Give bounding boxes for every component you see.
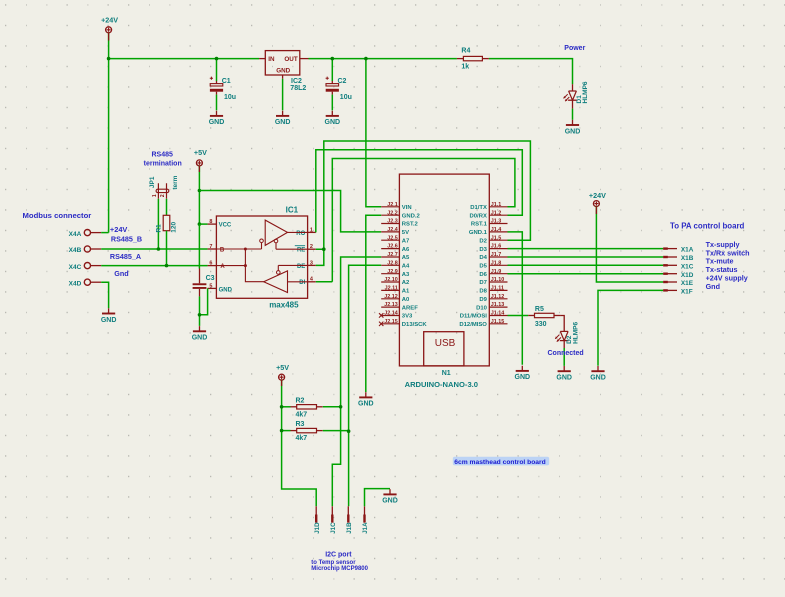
svg-text:JP1: JP1 [149, 176, 156, 188]
svg-text:X4A: X4A [69, 231, 82, 238]
svg-text:A3: A3 [402, 272, 410, 278]
IC1 interior RE/DE enables [276, 243, 308, 271]
svg-text:GND: GND [192, 335, 208, 342]
svg-text:Gnd: Gnd [706, 282, 720, 291]
connector pin X1B [663, 256, 677, 258]
pin J2.13 (AREF) [381, 306, 399, 308]
pin J1.12 (D9) [489, 298, 507, 300]
svg-text:R5: R5 [535, 306, 544, 313]
pin OUT of IC2 [300, 58, 309, 60]
svg-text:J2.7: J2.7 [387, 252, 398, 258]
IC1 interior receiver triangle [265, 220, 287, 245]
pin J2.14 (3V3) [381, 315, 399, 317]
connector pin X1F [663, 289, 677, 291]
svg-text:4k7: 4k7 [296, 412, 308, 419]
regulator IC2 78L2 [265, 51, 300, 75]
junction R3 / A4 [347, 429, 351, 433]
pin J2.10 (A2) [381, 281, 399, 283]
svg-text:7: 7 [209, 244, 212, 250]
pin J1.15 (D12/MISO) [489, 323, 507, 325]
pin J1.11 (D8) [489, 289, 507, 291]
junction R2 / A5 [339, 405, 343, 409]
connector pin J1C [331, 506, 333, 522]
svg-text:GND: GND [275, 119, 291, 126]
wire +5V to R3 [282, 430, 291, 432]
pin J1.9 (D6) [489, 273, 507, 275]
ground below IC1 [199, 326, 201, 331]
wire X4A to +24V net [101, 232, 108, 234]
wire DI to D1/TX (J1.1) [316, 159, 515, 282]
pin J2.5 (A7) [381, 239, 399, 241]
svg-text:DI: DI [299, 280, 305, 286]
junction +24V rail / vertical [107, 57, 111, 61]
ground below D2 [563, 366, 565, 371]
svg-text:1: 1 [152, 194, 158, 197]
power symbol +24V (top left) [106, 27, 112, 33]
wire J1A to ground [365, 489, 391, 507]
wire rail to C2 [331, 59, 333, 81]
wire R3 to A4 line [323, 430, 349, 432]
svg-text:A7: A7 [402, 238, 410, 244]
svg-text:VCC: VCC [219, 222, 232, 228]
svg-text:J1.14: J1.14 [491, 311, 505, 317]
ground below D1 [572, 120, 574, 125]
svg-text:Modbus connector: Modbus connector [23, 211, 92, 220]
svg-text:J2.4: J2.4 [387, 227, 398, 233]
svg-text:J2.8: J2.8 [387, 260, 398, 266]
resistor R3 4k7 [291, 430, 297, 432]
svg-text:1: 1 [310, 227, 313, 233]
resistor R4 1k [457, 58, 464, 60]
pin 7 B of IC1 [208, 248, 217, 250]
svg-text:J1A: J1A [362, 522, 369, 534]
svg-text:C2: C2 [338, 78, 347, 85]
svg-text:4k7: 4k7 [296, 435, 308, 442]
svg-text:A: A [220, 264, 225, 270]
resistor R2 4k7 [291, 406, 297, 408]
ground below GND.2 [365, 392, 367, 397]
pin J2.8 (A4) [381, 264, 399, 266]
svg-text:J1.2: J1.2 [491, 210, 502, 216]
svg-text:Microchip MCP9800: Microchip MCP9800 [311, 566, 368, 572]
svg-text:6cm masthead control board: 6cm masthead control board [454, 459, 545, 466]
pin J2.7 (A5) [381, 256, 399, 258]
wire A5 (J2.7) to J1C [332, 257, 381, 506]
svg-text:DE: DE [297, 264, 305, 270]
svg-text:J1D: J1D [314, 522, 321, 534]
svg-text:RE: RE [297, 248, 305, 254]
pin J2.4 (5V) [381, 231, 399, 233]
pin 3 DE of IC1 [308, 264, 316, 266]
svg-text:B: B [220, 247, 225, 253]
USB box [424, 332, 464, 366]
wire R2 to A5 line [323, 406, 341, 408]
svg-text:X1A: X1A [681, 247, 694, 254]
lead to D1 anode [572, 84, 574, 91]
svg-text:120: 120 [171, 221, 178, 232]
svg-text:+5V: +5V [194, 148, 207, 157]
svg-text:GND: GND [276, 68, 290, 75]
ground below X1F [597, 366, 599, 371]
svg-text:C3: C3 [206, 275, 215, 282]
pin 1 RO of IC1 [308, 231, 316, 233]
svg-text:2: 2 [160, 194, 166, 197]
ground below C1 [216, 111, 218, 116]
junction C2 tap [331, 57, 335, 61]
resistor R1 120 (termination) [163, 215, 170, 230]
svg-text:J2.10: J2.10 [384, 277, 398, 283]
svg-text:GND: GND [219, 287, 233, 293]
svg-text:D3: D3 [479, 247, 487, 253]
wire RE+DE to D2 (J1.5) [316, 141, 531, 265]
pin J2.12 (A0) [381, 298, 399, 300]
svg-text:A2: A2 [402, 280, 410, 286]
wire +24V vertical from symbol to X4A row [108, 33, 110, 233]
svg-text:A5: A5 [402, 255, 410, 261]
wire +12V rail to Arduino VIN (J2.1) [366, 59, 381, 207]
svg-text:HLMP6: HLMP6 [572, 321, 579, 343]
pin J1.8 (D5) [489, 264, 507, 266]
pin J1.4 (GND.1) [489, 231, 507, 233]
svg-text:8: 8 [209, 219, 212, 225]
svg-text:to Temp sensor: to Temp sensor [311, 560, 356, 566]
svg-text:X1C: X1C [681, 263, 694, 270]
power symbol pin stubs [109, 33, 597, 387]
svg-text:78L2: 78L2 [290, 85, 306, 92]
svg-text:USB: USB [435, 338, 456, 349]
junction VIN tap on rail [364, 57, 368, 61]
pin J1.7 (D4) [489, 256, 507, 258]
module N1 ARDUINO-NANO-3.0 body [399, 174, 489, 366]
junction C3/IC1 gnd [198, 313, 202, 317]
wire JP1 pin1 to RS485_B [157, 199, 159, 249]
ground below IC2 [282, 111, 284, 116]
svg-text:J1.7: J1.7 [491, 252, 502, 258]
wire RO to D0/RX (J1.2) [316, 150, 523, 233]
svg-text:max485: max485 [269, 301, 299, 310]
connector pin X4A [84, 230, 90, 236]
junction C1 tap [215, 57, 219, 61]
pin J1.3 (RST.1) [489, 223, 507, 225]
wire D3 (J1.6) to X1A [508, 248, 664, 250]
junction +5V branch [198, 189, 202, 193]
svg-text:+24V: +24V [589, 191, 606, 200]
wire +5V to Arduino 5V pin (J2.4) [199, 191, 381, 232]
connector pin J1A [364, 506, 366, 522]
svg-text:AREF: AREF [402, 305, 418, 311]
wire JP1 pin2 to R1 [166, 199, 168, 216]
pin J1.6 (D3) [489, 248, 507, 250]
wire X4D to ground [101, 282, 108, 308]
svg-text:D9: D9 [479, 297, 487, 303]
svg-text:term: term [172, 175, 179, 189]
svg-text:J1.13: J1.13 [491, 302, 505, 308]
svg-text:D12/MISO: D12/MISO [459, 322, 487, 328]
pin J2.6 (A6) [381, 248, 399, 250]
svg-text:J2.5: J2.5 [387, 235, 398, 241]
svg-text:RS485: RS485 [151, 152, 173, 159]
wire IC2 OUT rail to R4 [309, 58, 457, 60]
svg-text:D13/SCK: D13/SCK [402, 322, 428, 328]
svg-text:GND: GND [209, 119, 225, 126]
svg-text:J2.13: J2.13 [384, 302, 398, 308]
svg-text:J2.15: J2.15 [384, 319, 398, 325]
pin 2 RE of IC1 [308, 248, 316, 250]
svg-text:10u: 10u [224, 94, 236, 101]
svg-text:A4: A4 [402, 264, 410, 270]
connector pin X1A [663, 248, 677, 250]
wire +24V to X1E [596, 206, 663, 282]
wire C1 to ground [216, 95, 218, 111]
ground below J1A [389, 489, 391, 494]
wire R1 to RS485_A [166, 231, 168, 266]
svg-text:J1.12: J1.12 [491, 294, 505, 300]
wire IC1 GND to ground jog [200, 288, 208, 314]
power symbol +5V (I2C) [279, 374, 285, 380]
svg-text:R1: R1 [156, 224, 163, 233]
svg-text:D0/RX: D0/RX [470, 213, 487, 219]
lead R5 to D2 [560, 316, 564, 332]
svg-text:D1/TX: D1/TX [470, 205, 487, 211]
svg-text:A1: A1 [402, 289, 410, 295]
junction R1 on A line [165, 264, 169, 268]
svg-text:RS485_B: RS485_B [111, 234, 142, 243]
pin J1.14 (D11/MOSI) [489, 315, 507, 317]
svg-text:GND.1: GND.1 [469, 230, 488, 236]
svg-text:J2.3: J2.3 [387, 219, 398, 225]
pin GND of IC2 [282, 75, 284, 79]
svg-text:1k: 1k [461, 64, 469, 71]
junction JP1 on B line [157, 247, 161, 251]
svg-text:IC1: IC1 [286, 206, 299, 215]
wire rail to C1 [216, 59, 218, 81]
svg-text:2: 2 [310, 244, 313, 250]
connector pin X1D [663, 273, 677, 275]
svg-text:RS485_A: RS485_A [110, 252, 141, 261]
pin IN of IC2 [259, 58, 265, 60]
svg-text:X1D: X1D [681, 272, 694, 279]
svg-text:J1.4: J1.4 [491, 227, 502, 233]
svg-text:J1.9: J1.9 [491, 269, 502, 275]
pin J1.10 (D7) [489, 281, 507, 283]
svg-text:GND: GND [101, 317, 117, 324]
no-connect cross on 3V3 [379, 313, 383, 317]
svg-text:C1: C1 [222, 78, 231, 85]
svg-text:D6: D6 [479, 272, 487, 278]
svg-text:J1C: J1C [330, 522, 337, 534]
svg-text:J1.10: J1.10 [491, 277, 505, 283]
connector pin X1E [663, 281, 677, 283]
wire C2 to ground [331, 95, 333, 111]
svg-text:OUT: OUT [284, 56, 297, 63]
svg-text:GND: GND [515, 374, 531, 381]
svg-text:J2.12: J2.12 [384, 294, 398, 300]
svg-text:X4C: X4C [69, 264, 82, 271]
svg-text:5V: 5V [402, 230, 409, 236]
svg-text:J1.5: J1.5 [491, 235, 502, 241]
svg-text:termination: termination [144, 160, 182, 167]
connector pin X4C [84, 263, 90, 269]
wire D2 to ground [563, 348, 565, 366]
svg-text:J1.8: J1.8 [491, 260, 502, 266]
pin 6 A of IC1 [208, 265, 217, 267]
wire to IC1 VCC pin [199, 223, 207, 225]
svg-text:J1.6: J1.6 [491, 244, 502, 250]
svg-text:GND: GND [590, 375, 606, 382]
pin 4 DI of IC1 [308, 281, 316, 283]
svg-text:X4B: X4B [69, 247, 82, 254]
connector pin J1B [347, 506, 349, 522]
wire D5 (J1.8) to X1C [508, 264, 664, 266]
lead D1 cathode [572, 100, 574, 108]
wire RS485_A from X4C to IC1 pin A [101, 265, 207, 267]
capacitor C3 [199, 269, 201, 284]
svg-text:J2.14: J2.14 [384, 311, 398, 317]
wire GND.2 (J2.2) to ground [366, 215, 381, 392]
svg-text:To PA control board: To PA control board [670, 221, 745, 230]
svg-text:J1.1: J1.1 [491, 202, 502, 208]
wire +5V to R2 [282, 406, 291, 408]
svg-text:Connected: Connected [548, 350, 584, 357]
svg-text:D4: D4 [479, 255, 487, 261]
wire +5V down to VCC [198, 166, 200, 225]
svg-text:HLMP6: HLMP6 [582, 81, 589, 103]
power symbol +24V (right) [593, 201, 599, 207]
svg-text:X4D: X4D [69, 280, 82, 287]
svg-text:J2.6: J2.6 [387, 244, 398, 250]
pin J2.1 (VIN) [381, 206, 399, 208]
svg-text:J2.2: J2.2 [387, 210, 398, 216]
IC1 interior B/A bus [216, 243, 263, 282]
wire D1 to ground [572, 109, 574, 120]
capacitor C2 10u [331, 81, 333, 84]
pin J1.5 (D2) [489, 239, 507, 241]
junction R3 on +5V [280, 429, 284, 433]
svg-text:GND: GND [325, 119, 341, 126]
svg-text:330: 330 [535, 321, 547, 328]
junction RE/DE tie [322, 247, 326, 251]
svg-text:10u: 10u [340, 94, 352, 101]
pin J2.15 (D13/SCK) [381, 323, 399, 325]
wire D11/MOSI to R5 [508, 315, 529, 317]
svg-text:+24V: +24V [110, 225, 128, 234]
connector pin J1D [315, 506, 317, 522]
svg-text:J1.3: J1.3 [491, 219, 502, 225]
resistor R5 330 [528, 314, 534, 316]
svg-text:X1F: X1F [681, 289, 693, 296]
svg-text:3V3: 3V3 [402, 314, 413, 320]
pin J1.1 (D1/TX) [489, 206, 507, 208]
svg-text:3: 3 [310, 260, 313, 266]
pin J1.2 (D0/RX) [489, 214, 507, 216]
IC1 interior driver triangle [264, 271, 288, 293]
wire +24V rail to IC2 IN [109, 58, 260, 60]
connector pin X4D [84, 279, 90, 285]
op-amp U1 / transceiver IC1 max485 body [216, 216, 307, 298]
junction at VCC branch [198, 222, 202, 226]
capacitor C1 10u [216, 81, 218, 84]
wire VCC down to C3 [198, 224, 200, 268]
ground below C2 [331, 111, 333, 116]
svg-text:GND: GND [565, 128, 581, 135]
svg-text:+5V: +5V [276, 363, 289, 372]
svg-text:J1.15: J1.15 [491, 319, 505, 325]
wire X1F to ground [598, 290, 663, 365]
pin J2.11 (A1) [381, 289, 399, 291]
wire C3 to ground [199, 296, 201, 326]
svg-text:D7: D7 [479, 280, 487, 286]
svg-text:J2.1: J2.1 [387, 202, 398, 208]
wire +5V to J1D [282, 380, 317, 506]
ground below X4D [108, 308, 110, 313]
svg-text:A0: A0 [402, 297, 410, 303]
lead D2 cathode [563, 341, 565, 348]
pin 8 VCC of IC1 [208, 223, 217, 225]
svg-text:R3: R3 [296, 421, 305, 428]
no-connect cross on D13/SCK [379, 322, 383, 326]
svg-text:GND: GND [382, 498, 398, 505]
svg-text:D11/MOSI: D11/MOSI [460, 314, 488, 320]
svg-text:J1.11: J1.11 [491, 286, 504, 292]
svg-text:GND: GND [358, 401, 374, 408]
svg-text:Power: Power [564, 45, 585, 52]
svg-text:RST.1: RST.1 [471, 222, 488, 228]
svg-text:GND.2: GND.2 [402, 213, 421, 219]
svg-text:D10: D10 [476, 305, 488, 311]
svg-text:J2.11: J2.11 [385, 286, 398, 292]
svg-text:X1B: X1B [681, 255, 694, 262]
pin 5 GND of IC1 [208, 287, 217, 289]
svg-text:IN: IN [268, 56, 275, 63]
svg-text:GND: GND [556, 375, 572, 382]
svg-text:X1E: X1E [681, 280, 694, 287]
svg-text:R2: R2 [296, 398, 305, 405]
junction R2 on +5V [280, 405, 284, 409]
svg-text:D5: D5 [479, 264, 487, 270]
svg-text:ARDUINO-NANO-3.0: ARDUINO-NANO-3.0 [405, 380, 478, 389]
title note: 6cm masthead control board [453, 457, 549, 466]
wire GND.1 (J1.4) to ground [508, 232, 523, 365]
pin J2.3 (RST.2) [381, 223, 399, 225]
svg-text:RST.2: RST.2 [402, 222, 419, 228]
wire IC2 GND down [282, 79, 284, 111]
wire R4 to LED D1 [489, 59, 573, 85]
power symbol +5V (max485 area) [196, 160, 202, 166]
LED D2 HLMP6 (Connected) [560, 330, 568, 332]
jumper JP1 [158, 183, 166, 199]
wire A4 (J2.8) to J1B [349, 265, 382, 506]
svg-text:D8: D8 [479, 289, 487, 295]
svg-text:+24V: +24V [101, 15, 118, 24]
svg-text:5: 5 [209, 283, 212, 289]
svg-text:R4: R4 [461, 47, 470, 54]
wire D6 (J1.9) to X1D [508, 273, 664, 275]
svg-text:RO: RO [296, 231, 305, 237]
svg-text:J1B: J1B [346, 522, 353, 534]
ground below GND.1 [521, 366, 523, 371]
svg-text:J2.9: J2.9 [387, 269, 398, 275]
pin J2.9 (A3) [381, 273, 399, 275]
svg-text:VIN: VIN [402, 205, 412, 211]
svg-text:6: 6 [209, 261, 212, 267]
pin J1.13 (D10) [489, 306, 507, 308]
LED D1 HLMP6 (Power) [569, 90, 577, 92]
wire D4 (J1.7) to X1B [508, 256, 664, 258]
svg-text:A6: A6 [402, 247, 410, 253]
pin J2.2 (GND.2) [381, 214, 399, 216]
svg-text:D2: D2 [479, 238, 487, 244]
connector pin X1C [663, 264, 677, 266]
